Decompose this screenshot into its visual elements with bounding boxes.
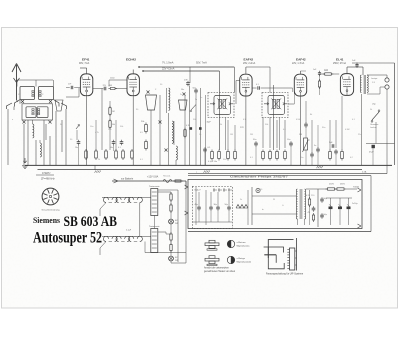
svg-text:6(4)-V: 6(4)-V [195,190,202,192]
svg-text:W: W [273,199,275,201]
svg-text:25n: 25n [108,129,111,131]
svg-text:2x50µ: 2x50µ [352,203,358,205]
svg-text:0.1: 0.1 [256,84,259,86]
svg-text:Heizwid.: Heizwid. [163,176,171,178]
svg-text:Gesamtentstörung: Gesamtentstörung [42,209,61,212]
svg-text:2M: 2M [250,134,253,136]
svg-text:50k: 50k [193,119,196,121]
svg-text:4.7k: 4.7k [95,132,99,134]
svg-text:29V, 2.2mA: 29V, 2.2mA [243,62,256,65]
svg-text:= Rot-gn: = Rot-gn [237,257,246,260]
svg-text:1n: 1n [195,99,197,101]
svg-text:Fassungsschaltung für U/F-Syst: Fassungsschaltung für U/F-Systeme [266,273,304,276]
svg-text:472kHz: 472kHz [42,172,51,175]
svg-text:50k: 50k [265,124,268,126]
svg-text:22V: 22V [240,127,244,129]
svg-text:92V, 7mA: 92V, 7mA [196,62,207,65]
svg-text:SB 603 AB: SB 603 AB [64,214,118,230]
svg-text:Bananen-: Bananen- [371,124,380,126]
svg-text:1n: 1n [199,134,201,136]
svg-text:50n: 50n [300,157,303,159]
svg-text:x: x [240,94,241,96]
svg-text:Dr: Dr [240,199,242,201]
svg-text:Siemens: Siemens [33,216,60,225]
svg-text:25n: 25n [358,134,361,136]
svg-text:8k: 8k [310,114,312,116]
svg-text:Tastensatz: Tastensatz [149,185,159,188]
svg-text:47µF: 47µF [369,152,374,154]
svg-text:0.1: 0.1 [118,147,121,149]
svg-text:7V, 1.9mA: 7V, 1.9mA [162,62,174,65]
svg-text:265V: 265V [340,184,345,186]
svg-text:buchse: buchse [371,127,377,129]
svg-text:EF41: EF41 [82,58,90,62]
svg-text:Wgerätsozea: Wgerätsozea [237,245,251,248]
svg-text:0.5M: 0.5M [296,119,301,121]
svg-text:0,1µF: 0,1µF [126,230,132,232]
svg-text:1M: 1M [230,134,233,136]
svg-text:Gleichrichter Philips 3N5/97: Gleichrichter Philips 3N5/97 [230,175,289,179]
svg-text:22V 4.2mA: 22V 4.2mA [162,68,175,71]
svg-text:4.7k: 4.7k [186,125,190,127]
svg-text:2W: 2W [175,260,178,262]
svg-text:50n: 50n [181,89,184,91]
svg-text:10n: 10n [287,139,290,141]
svg-text:zur Batterie: zur Batterie [121,178,134,181]
svg-text:90V, 7mA: 90V, 7mA [79,62,90,65]
svg-text:0.2A: 0.2A [362,170,367,173]
svg-text:Lautspr.: Lautspr. [371,77,378,80]
svg-text:2k: 2k [98,159,100,161]
svg-text:= Rot am: = Rot am [237,241,246,244]
svg-text:1M: 1M [299,134,302,136]
svg-text:22V, 1.7mA: 22V, 1.7mA [292,62,305,65]
svg-text:5k: 5k [220,124,222,126]
svg-text:5k: 5k [370,109,372,111]
svg-text:50n: 50n [110,147,113,149]
svg-text:50k: 50k [120,126,123,128]
svg-text:10n: 10n [90,126,93,128]
svg-text:0.3M: 0.3M [345,129,350,131]
svg-text:250V, 27mA: 250V, 27mA [333,62,346,65]
svg-text:EAF42: EAF42 [244,58,254,62]
svg-text:2n: 2n [180,94,182,96]
svg-text:1M: 1M [112,111,115,113]
svg-text:50n: 50n [253,139,256,141]
svg-text:30n: 30n [322,127,325,129]
svg-text:Wgerätsozeale: Wgerätsozeale [237,261,252,264]
svg-text:5n: 5n [314,145,316,147]
svg-text:2W: 2W [175,223,178,225]
svg-text:0.1µF 50n: 0.1µF 50n [208,161,217,163]
svg-text:10n: 10n [75,147,78,149]
svg-text:Ansicht der untersetzten: Ansicht der untersetzten [204,267,229,270]
svg-text:70mA: 70mA [353,186,359,189]
svg-text:1kΩ: 1kΩ [324,70,328,72]
svg-text:Autosuper 52: Autosuper 52 [33,229,102,246]
svg-text:gezeichneten Tasten von oben: gezeichneten Tasten von oben [204,270,236,273]
svg-text:50n: 50n [223,159,226,161]
svg-text:1n: 1n [200,97,202,99]
svg-text:250V: 250V [329,184,334,186]
svg-text:50k: 50k [112,124,115,126]
svg-text:22kΩ: 22kΩ [110,78,115,80]
svg-text:ZF=468 kHz: ZF=468 kHz [41,177,55,180]
svg-text:EAF42: EAF42 [296,58,306,62]
svg-text:+12V 0.8A: +12V 0.8A [147,176,159,179]
svg-text:EL41: EL41 [336,58,344,62]
svg-text:ECH42: ECH42 [126,58,136,62]
